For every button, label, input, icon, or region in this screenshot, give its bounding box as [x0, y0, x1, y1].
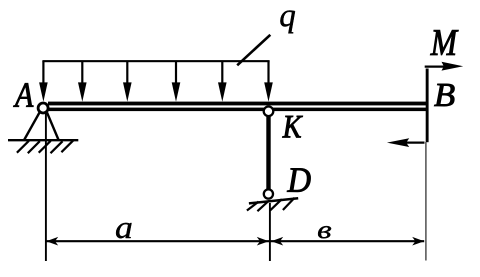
moment top arrow (rightward): [425, 62, 464, 71]
moment couple vertical bar at B: [426, 69, 429, 143]
pin support A hatch 2: [28, 141, 40, 153]
pin support A hatch 5: [61, 140, 73, 152]
load arrow 1: [39, 61, 48, 102]
support D hatch 3: [270, 199, 282, 210]
label A: [13, 83, 33, 106]
pin support A ground line: [8, 139, 78, 141]
load arrow 2: [78, 61, 87, 102]
dimension extension line at A: [45, 112, 47, 261]
load arrow 5: [218, 61, 227, 102]
dimension arrow right of K (leftward): [271, 237, 283, 246]
support D hatch 2: [257, 201, 269, 212]
load arrow 6: [264, 61, 273, 102]
strut K-D: [266, 114, 270, 190]
pin support A left leg: [24, 113, 40, 141]
label B: [434, 84, 454, 106]
dimension arrow at A (leftward): [46, 237, 58, 246]
label q: [280, 11, 295, 34]
pin support A hatch 3: [39, 141, 51, 153]
hinge circle D: [264, 189, 273, 198]
support D hatch 4: [283, 198, 295, 210]
load arrow 3: [123, 61, 132, 102]
beam AB top chord: [48, 102, 427, 106]
label a: [116, 223, 131, 238]
pin support A hatch 1: [17, 141, 29, 153]
support D ground line: [249, 198, 298, 203]
pin support A hatch 4: [51, 141, 63, 153]
hinge circle K: [264, 107, 274, 117]
pin support A hinge circle: [38, 103, 48, 113]
label D: [287, 168, 310, 191]
load arrow 4: [172, 61, 181, 102]
label в: [318, 226, 331, 238]
moment bottom arrow (leftward): [387, 138, 425, 147]
distributed load top line: [42, 60, 269, 62]
dimension arrow at B (rightward): [412, 237, 424, 246]
dimension extension line at B: [425, 142, 427, 261]
beam AB bottom chord: [48, 108, 427, 112]
dimension extension line at D: [269, 203, 271, 261]
dimension arrow left of K (rightward): [257, 237, 269, 246]
support D hatch 1: [247, 202, 259, 211]
label K: [282, 116, 302, 137]
pin support A right leg: [47, 113, 59, 141]
label M: [430, 30, 458, 55]
dimension line for spans a and b: [46, 240, 424, 242]
leader line to q: [237, 35, 270, 66]
